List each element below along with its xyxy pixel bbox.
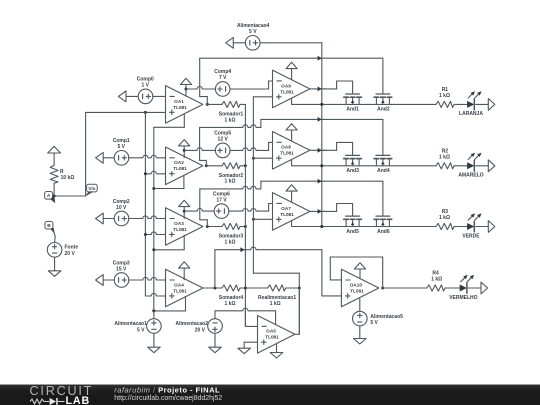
wire OA5 out to Realimentacao1 [295,288,299,334]
node Vin flag [86,184,98,196]
svg-text:1 kΩ: 1 kΩ [225,239,236,245]
svg-text:TL081: TL081 [173,227,187,232]
svg-text:10 kΩ: 10 kΩ [61,175,75,181]
svg-text:And6: And6 [377,229,390,235]
source Comp2 10 V [96,199,166,226]
op-amp OA10 [341,269,378,307]
resistor Somador3 1k [207,223,247,245]
power flag V+ of OA1 [180,78,191,96]
LED VERDE [454,213,481,239]
wire A to Vin riser [53,195,86,198]
transistor And4 [374,155,392,174]
wire summing bus to OA5- [245,310,257,326]
svg-text:And1: And1 [346,107,359,113]
output terminal row 4 [468,282,487,294]
op-amp OA9 [273,70,310,108]
LED AMARELO [454,153,484,179]
resistor R2 1k [436,149,454,169]
power flag V+ of OA7 [286,185,297,202]
svg-text:1 kΩ: 1 kΩ [439,154,450,160]
op-amp OA2 [166,147,203,185]
op-amp OA1 [166,86,203,124]
wire OA5+ to ground [244,342,257,348]
resistor R1 1k [436,87,454,107]
svg-text:1 kΩ: 1 kΩ [270,301,281,307]
label R [60,169,74,181]
power flag V+ of OA4 [179,262,190,280]
wire OA8+ tap [252,157,273,160]
transistor And1 [344,94,362,113]
svg-text:And4: And4 [377,168,390,174]
resistor R 10k (vertical) [50,165,58,196]
power flag V+ of OA10 [354,263,365,278]
svg-text:LARANJA: LARANJA [459,111,483,117]
svg-text:OA7: OA7 [281,206,291,211]
svg-text:OA3: OA3 [174,221,184,226]
wire gate feed [322,204,353,217]
svg-text:5 V: 5 V [249,29,257,35]
svg-text:And2: And2 [377,107,390,113]
wire gate feed [322,142,353,155]
transistor And3 [344,155,362,174]
svg-text:TL081: TL081 [173,288,187,293]
wire OA1 out riser to top wire [200,58,209,106]
source Comp3 15 V [96,260,166,287]
wire Vin bus to OA3+ [144,232,166,236]
wire OA2 V+ to Comp5 [184,148,215,151]
svg-text:15 V: 15 V [116,266,127,272]
source Comp6 17 V [213,191,272,218]
power rail bus [153,127,155,311]
CircuitLab logo [0,384,540,405]
svg-text:Alimentacao2: Alimentacao2 [175,321,208,327]
op-amp OA5 [258,316,295,354]
ground below Alimentacao1 [148,347,161,353]
svg-text:TL081: TL081 [280,212,294,217]
source Alimentacao4 5V [226,23,322,50]
svg-text:rafarubim / Projeto - FINAL: rafarubim / Projeto - FINAL [114,385,220,394]
wire OA1 V- to power rail [154,114,185,127]
output terminal row 2 [476,160,495,172]
transistor And2 [374,94,392,113]
ground below OA5 [270,353,283,359]
wire op-amp out to bus [310,209,326,214]
wire Vin bus to OA4+ [145,293,165,296]
svg-text:Alimentacao5: Alimentacao5 [370,314,403,320]
op-amp OA7 [273,193,310,231]
wire OA3 V+ to Comp6 [184,209,214,212]
output terminal row 3 [476,221,495,233]
svg-text:Fonte: Fonte [65,245,79,251]
right bus [320,43,323,228]
wire And row 2 [292,160,436,168]
source Comp4 7 V [214,69,272,96]
svg-text:AMARELO: AMARELO [458,173,483,179]
node A flag [45,192,55,203]
svg-text:5 V: 5 V [370,320,378,326]
source Comp5 12 V [214,131,272,158]
wire OA4 out to OA10+ [215,247,342,296]
svg-text:OA9: OA9 [281,83,291,88]
svg-text:TL081: TL081 [265,335,279,340]
svg-text:12 V: 12 V [218,137,229,143]
source Comp1 5 V [96,138,166,165]
svg-text:1 kΩ: 1 kΩ [225,301,236,307]
source Fonte 20V [47,234,62,271]
op-amp OA3 [166,208,203,246]
svg-text:OA10: OA10 [350,282,363,287]
svg-text:http://circuitlab.com/cwaej8dd: http://circuitlab.com/cwaej8dd2hj52 [114,394,222,401]
wire OA2 out riser [200,117,383,167]
source Alimentacao5 5V [353,299,404,339]
wire op-amp out to bus [310,87,326,92]
svg-text:TL081: TL081 [173,105,187,110]
svg-text:TL081: TL081 [280,151,294,156]
ground flag arrow above R [48,146,61,165]
svg-text:5 V: 5 V [137,327,145,333]
resistor Realimentacao1 1k [245,285,300,307]
transistor And6 [374,216,392,235]
svg-text:And3: And3 [346,168,359,174]
svg-text:Alimentacao1: Alimentacao1 [114,321,147,327]
wire And row 1 [292,98,436,106]
svg-text:17 V: 17 V [216,197,227,203]
svg-text:And5: And5 [346,229,359,235]
resistor R4 1k [383,271,445,291]
svg-text:Vin: Vin [88,186,95,191]
svg-text:1 kΩ: 1 kΩ [225,179,236,185]
source Alimentacao1 5V [114,309,161,347]
wire OA2 V- stub [152,175,184,190]
wire OA3 V- stub [152,235,184,251]
svg-text:20 V: 20 V [195,327,206,333]
op-amp OA8 [273,132,310,170]
LED VERMELHO [445,275,478,301]
ground below Alimentacao5 [354,339,367,345]
ground at OA5+ [238,348,251,354]
resistor Somador1 1k [207,101,245,123]
svg-text:OA2: OA2 [174,160,184,165]
wire Vin bus down [144,112,146,296]
source Alimentacao2 20V [175,308,275,347]
wire OA1 V+ to Comp4 [186,86,215,89]
wire OA3 out riser [200,179,383,228]
wire OA7+ tap [252,218,273,221]
wire OA9+ tap [253,96,272,98]
wire top (OA1 out to And2 gate) [200,56,383,94]
svg-text:OA1: OA1 [174,99,184,104]
svg-text:TL081: TL081 [350,288,364,293]
svg-text:OA5: OA5 [266,329,276,334]
wire Vin bus to OA2+ [144,171,166,175]
plus-input bus [253,97,299,334]
ground below Alimentacao2 [209,347,222,353]
svg-text:1 kΩ: 1 kΩ [431,277,442,283]
wire OA4 V- stub [152,297,185,313]
middle bus (summing node) [244,104,246,326]
LED LARANJA [454,91,483,117]
transistor And5 [344,216,362,235]
svg-text:OA8: OA8 [281,145,291,150]
svg-text:B: B [47,223,51,228]
wire Vin riser [85,112,87,196]
svg-text:1 kΩ: 1 kΩ [225,117,236,123]
resistor Somador4 1k [219,285,247,307]
svg-text:VERMELHO: VERMELHO [449,295,477,301]
wire OA5 V- to ground [276,344,278,353]
node B flag [45,221,54,233]
power flag V+ of OA3 [179,200,190,218]
svg-text:10 V: 10 V [116,205,127,211]
svg-text:TL081: TL081 [173,166,187,171]
power flag V+ of OA9 [286,62,297,79]
op-amp OA4 [166,269,203,307]
power flag V+ of OA8 [286,124,297,141]
wire gate feed [322,81,353,94]
svg-text:1 kΩ: 1 kΩ [439,215,450,221]
terminal below Fonte [48,271,61,277]
wire Alim2 to OA5 V+ [275,311,277,325]
wire op-amp out to bus [310,148,326,153]
feedback loop OA10 [330,257,384,290]
svg-text:1 kΩ: 1 kΩ [439,93,450,99]
svg-text:VERDE: VERDE [462,233,480,239]
wire OA4 out [203,287,222,290]
source Comp0 1 V [118,77,165,104]
resistor R3 1k [436,209,454,229]
svg-text:5 V: 5 V [117,144,125,150]
power flag V+ of OA2 [179,140,190,158]
wire And row 3 [292,221,436,228]
output terminal row 1 [476,99,495,111]
svg-text:7 V: 7 V [219,75,227,81]
svg-text:TL081: TL081 [280,89,294,94]
label Fonte [65,245,79,257]
resistor Somador2 1k [207,163,247,185]
svg-text:20 V: 20 V [65,251,76,257]
svg-text:LAB: LAB [66,394,91,405]
wire Vin to OA1+ [86,111,166,114]
svg-text:OA4: OA4 [174,282,184,287]
svg-text:1 V: 1 V [141,83,149,89]
